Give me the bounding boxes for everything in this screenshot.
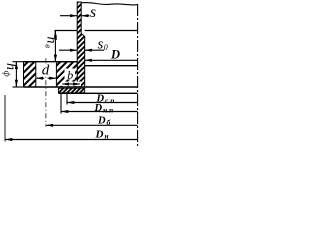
svg-text:в: в [44, 44, 54, 48]
svg-text:D: D [97, 116, 106, 127]
svg-text:s: s [98, 37, 104, 53]
svg-text:d: d [42, 63, 50, 79]
svg-text:h: h [44, 37, 59, 44]
svg-text:н: н [105, 132, 109, 141]
svg-text:ф: ф [2, 71, 12, 77]
svg-text:0: 0 [104, 43, 108, 52]
svg-text:н.п: н.п [103, 105, 113, 114]
svg-text:s: s [90, 4, 96, 21]
svg-text:D: D [110, 47, 120, 61]
svg-text:b: b [67, 68, 73, 82]
svg-text:D: D [94, 103, 103, 114]
svg-text:б: б [107, 118, 111, 127]
svg-text:h: h [3, 63, 18, 70]
svg-text:D: D [95, 128, 104, 140]
svg-text:с.п: с.п [105, 96, 114, 105]
